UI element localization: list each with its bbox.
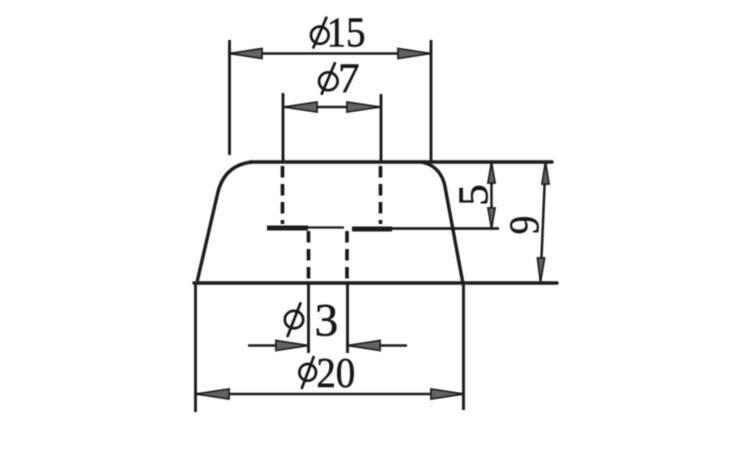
svg-text:7: 7 [338,56,360,103]
svg-text:3: 3 [315,295,339,346]
svg-text:9: 9 [500,216,548,235]
svg-text:20: 20 [316,349,355,396]
svg-text:15: 15 [326,9,365,56]
svg-text:5: 5 [451,184,498,206]
